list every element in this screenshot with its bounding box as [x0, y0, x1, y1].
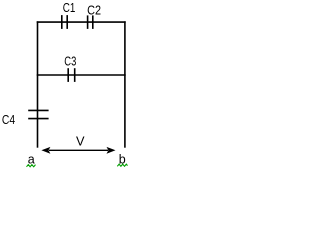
capacitor C2	[88, 15, 93, 29]
svg-text:C2: C2	[87, 2, 101, 17]
wire middle (C3 branch)	[37, 74, 126, 76]
svg-text:C4: C4	[2, 112, 15, 127]
spellcheck squiggle under a	[27, 165, 36, 167]
voltage arrow V (double-headed)	[41, 147, 115, 154]
svg-text:C1: C1	[63, 0, 76, 15]
capacitor C1	[62, 15, 67, 29]
capacitor C3	[68, 68, 75, 82]
wire right vertical	[124, 21, 126, 147]
svg-text:V: V	[76, 134, 85, 149]
wire top (node between C1/C2 chain)	[37, 21, 126, 23]
svg-text:C3: C3	[64, 54, 76, 69]
spellcheck squiggle under b	[117, 164, 127, 166]
capacitor C4	[28, 110, 48, 118]
wire left vertical	[37, 21, 39, 147]
